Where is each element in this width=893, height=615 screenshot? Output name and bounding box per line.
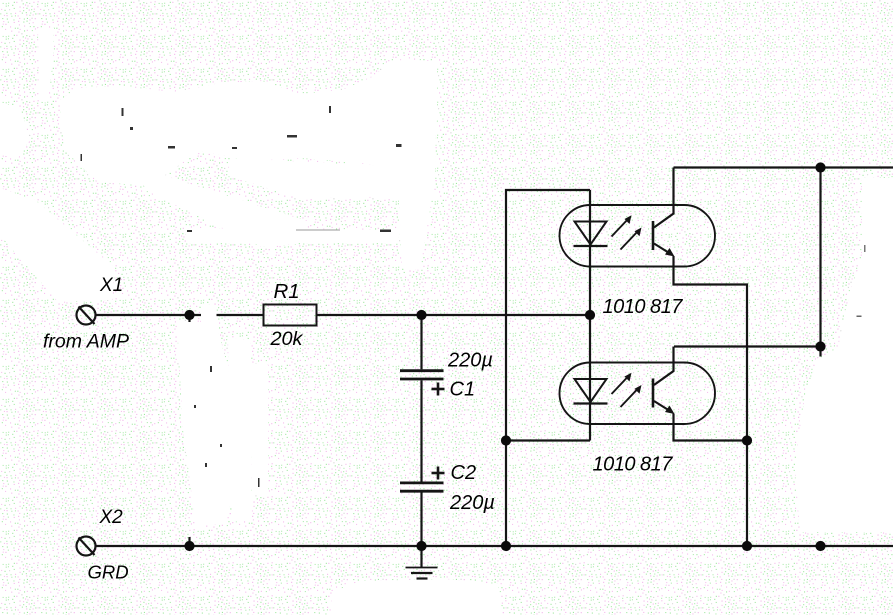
optocoupler U1 body <box>560 205 716 267</box>
capacitor C2 <box>400 483 444 491</box>
node U2 emitter <box>742 435 752 445</box>
node top rail <box>815 162 825 172</box>
wire X1 to junction <box>96 314 202 316</box>
light arrows of U1 <box>612 215 642 249</box>
node LED2 cathode left <box>501 435 511 445</box>
LED of U2 <box>574 315 608 441</box>
svg-text:C2: C2 <box>451 462 477 484</box>
capacitor C1 <box>400 371 444 379</box>
svg-text:220µ: 220µ <box>447 350 493 372</box>
svg-text:from AMP: from AMP <box>43 331 129 353</box>
resistor R1 <box>264 305 317 326</box>
plus sign of C2 <box>432 467 445 480</box>
wire C2 to ground rail <box>420 493 422 547</box>
svg-text:20k: 20k <box>270 328 304 350</box>
node ground left column <box>501 541 511 551</box>
svg-text:1010 817: 1010 817 <box>603 296 684 318</box>
wire U2 emitter to lower-right column <box>674 414 748 441</box>
svg-text:GRD: GRD <box>88 562 129 583</box>
svg-text:R1: R1 <box>274 280 300 303</box>
wire node to opto1 LED cathode column <box>422 314 591 316</box>
svg-text:1010 817: 1010 817 <box>593 454 674 476</box>
node R1/C1 <box>416 310 426 320</box>
wire right column upper <box>819 168 821 357</box>
wire U1 emitter to lower-right column <box>674 256 748 546</box>
wire R1 to node <box>317 314 422 316</box>
wire stub below X1 junction <box>188 315 190 322</box>
dark noise specks <box>81 106 866 487</box>
phototransistor of U1 <box>653 168 675 257</box>
wire C1 to C2 <box>420 380 422 481</box>
node U2 collector <box>815 341 825 351</box>
node LED1 cathode <box>585 310 595 320</box>
wire opto LED anode link <box>506 190 590 546</box>
node X1-junction <box>184 310 194 320</box>
phototransistor of U2 <box>653 347 675 415</box>
ground symbol <box>406 546 438 579</box>
optocoupler U2 body <box>560 363 716 425</box>
light arrows of U2 <box>612 373 642 407</box>
node ground X2 <box>184 541 194 551</box>
wire U2 LED cathode to left column <box>506 439 590 441</box>
svg-text:C1: C1 <box>450 379 476 401</box>
wire stub above X2 junction <box>188 537 190 541</box>
terminal X2 <box>77 537 96 556</box>
svg-text:X1: X1 <box>99 275 123 296</box>
capacitor C1 top lead <box>420 315 422 369</box>
node ground right column <box>815 541 825 551</box>
terminal X1 <box>77 306 96 325</box>
wire U2 collector to right column <box>674 345 821 347</box>
plus sign of C1 <box>432 383 445 396</box>
ground rail wire <box>96 545 893 547</box>
top supply wire <box>674 166 893 168</box>
node ground C2 <box>416 541 426 551</box>
node ground emitter column <box>742 541 752 551</box>
svg-text:X2: X2 <box>99 507 124 528</box>
LED of U1 <box>574 190 608 315</box>
wire junction to R1 (after gap) <box>217 314 264 316</box>
svg-text:220µ: 220µ <box>449 492 495 514</box>
